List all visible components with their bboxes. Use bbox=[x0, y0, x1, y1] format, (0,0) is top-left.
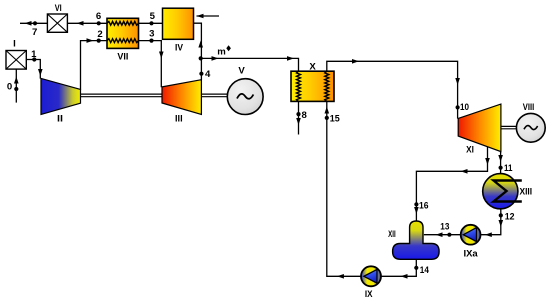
svg-text:16: 16 bbox=[419, 201, 429, 212]
arrow extraction left bbox=[461, 169, 468, 174]
arrow up into IV bbox=[198, 41, 203, 48]
svg-text:IV: IV bbox=[175, 43, 184, 54]
wire filter I to compressor II (node 1) bbox=[26, 60, 40, 79]
heat exchanger X bbox=[291, 71, 334, 101]
arrow down to node 10 bbox=[455, 78, 460, 85]
wire exhaust stub left of VI bbox=[20, 22, 47, 24]
wire air inlet stub node 0 bbox=[15, 69, 17, 103]
svg-text:8: 8 bbox=[302, 110, 308, 121]
arrow m* right 2 bbox=[287, 56, 294, 61]
svg-text:11: 11 bbox=[504, 163, 513, 174]
generator V bbox=[227, 79, 263, 115]
svg-text:VIII: VIII bbox=[523, 102, 535, 113]
svg-text:IX: IX bbox=[365, 289, 373, 300]
node 5 bbox=[149, 21, 153, 25]
node 12 bbox=[499, 213, 503, 217]
arrow down from node 12 bbox=[499, 220, 504, 227]
arrow bottom line left 1 bbox=[337, 274, 344, 279]
svg-text:m: m bbox=[217, 47, 226, 58]
compressor II bbox=[41, 78, 81, 114]
svg-text:3: 3 bbox=[149, 29, 154, 40]
wire turbine III exhaust riser to IV bbox=[194, 23, 202, 80]
node 2 bbox=[97, 39, 101, 43]
node 10 bbox=[456, 105, 460, 109]
arrow m* right 1 bbox=[212, 56, 219, 61]
svg-text:5: 5 bbox=[150, 11, 156, 22]
arrow fuel into IV bbox=[197, 14, 204, 19]
svg-text:13: 13 bbox=[440, 222, 449, 233]
svg-text:IXa: IXa bbox=[464, 249, 479, 260]
arrow down into turbine III bbox=[159, 52, 164, 59]
node 15 bbox=[325, 116, 329, 120]
condenser XIII bbox=[483, 174, 522, 209]
wire steam line X to turbine XI (node 10) bbox=[327, 61, 458, 118]
wire bottom line pump IX to node 14 bbox=[381, 259, 416, 276]
node 13 bbox=[447, 233, 451, 237]
filter I bbox=[6, 51, 26, 70]
shaft III-V bbox=[201, 93, 228, 95]
arrow extraction down bbox=[485, 158, 490, 165]
node 4 bbox=[199, 72, 203, 76]
arrow up into X right pass bbox=[325, 107, 330, 114]
arrow bottom line left 2 bbox=[401, 274, 408, 279]
arrow down to node 11 bbox=[498, 155, 503, 162]
turbine XI bbox=[458, 104, 501, 152]
node 16 bbox=[414, 202, 418, 206]
svg-text:12: 12 bbox=[505, 212, 515, 223]
arrow down into compressor II bbox=[38, 69, 43, 76]
svg-text:XI: XI bbox=[466, 144, 474, 155]
svg-text:XII: XII bbox=[388, 229, 396, 240]
svg-text:V: V bbox=[238, 65, 245, 76]
arrow steam right bbox=[352, 59, 359, 64]
shaft XI-VIII bbox=[501, 125, 517, 127]
node 8 bbox=[296, 112, 300, 116]
combustor IV bbox=[163, 8, 194, 39]
svg-text:7: 7 bbox=[32, 27, 37, 38]
wire compressor outlet riser to node 2 bbox=[81, 41, 108, 90]
arrow down into XII stem bbox=[414, 207, 419, 214]
wire XI extraction to XII (node 16) bbox=[416, 142, 487, 221]
generator VIII bbox=[516, 113, 545, 142]
node 3 bbox=[149, 39, 153, 43]
node m* junction bbox=[199, 56, 203, 60]
arrow up into filter I bbox=[14, 77, 19, 84]
wire VII to IV (node 5) bbox=[139, 22, 163, 24]
svg-text:II: II bbox=[57, 113, 63, 124]
svg-text:6: 6 bbox=[96, 11, 101, 22]
wire node 3 to turbine III inlet bbox=[139, 41, 162, 88]
wire pump IXa to XII stem (node 13) bbox=[424, 234, 461, 236]
filter VI bbox=[47, 14, 67, 32]
svg-text:2: 2 bbox=[97, 29, 102, 40]
svg-text:10: 10 bbox=[460, 102, 469, 113]
svg-text:1: 1 bbox=[31, 49, 37, 60]
node 0 bbox=[14, 87, 18, 91]
node 14 bbox=[414, 266, 418, 270]
arrow exhaust left bbox=[25, 21, 32, 26]
svg-text:XIII: XIII bbox=[520, 187, 533, 198]
node 11 bbox=[499, 166, 503, 170]
node 6 bbox=[97, 21, 101, 25]
wire feedwater pump IX up to X (node 15) bbox=[327, 101, 361, 276]
svg-text:X: X bbox=[309, 62, 316, 73]
pump IXa bbox=[461, 225, 481, 245]
wire XI exhaust to condenser XIII (node 11) bbox=[500, 152, 502, 174]
svg-text:4: 4 bbox=[205, 69, 211, 80]
wire fuel arrow line into IV bbox=[197, 15, 220, 17]
wire XIII to pump IXa (node 12) bbox=[480, 209, 500, 235]
svg-text:VII: VII bbox=[117, 52, 128, 63]
turbine III bbox=[162, 80, 201, 115]
svg-text:14: 14 bbox=[420, 265, 430, 276]
arrow node2 right bbox=[87, 38, 94, 43]
shaft II-III bbox=[80, 94, 517, 129]
svg-text:VI: VI bbox=[55, 3, 62, 14]
deaerator XII bbox=[393, 221, 440, 259]
wire m* line to X bbox=[201, 58, 299, 71]
pump IX bbox=[361, 266, 381, 286]
node 1 bbox=[32, 57, 36, 61]
node 7 bbox=[33, 21, 37, 25]
arrow down exhaust node 8 bbox=[296, 118, 301, 125]
wire VI to VII top line bbox=[67, 22, 107, 24]
svg-text:0: 0 bbox=[7, 82, 12, 93]
svg-text:I: I bbox=[13, 38, 16, 49]
svg-text:III: III bbox=[175, 113, 183, 124]
arrow into XII stem right bbox=[436, 232, 443, 237]
heat exchanger VII bbox=[107, 18, 139, 48]
svg-text:15: 15 bbox=[330, 114, 341, 125]
arrow into pump IXa bbox=[485, 232, 492, 237]
arrow into VI bbox=[77, 21, 84, 26]
wire X left pass exhaust to node 8 bbox=[298, 101, 300, 134]
